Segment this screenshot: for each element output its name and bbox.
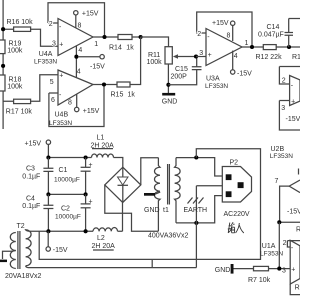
capacitor C1 [54, 158, 93, 195]
resistor R18 [0, 75, 23, 91]
svg-text:LF353N: LF353N [260, 250, 283, 257]
svg-text:R: R [295, 285, 300, 292]
svg-text:GND: GND [215, 267, 231, 274]
svg-text:C2: C2 [61, 205, 70, 212]
capacitor C15 [168, 57, 201, 85]
svg-text:LF353N: LF353N [49, 120, 72, 127]
svg-text:-15V: -15V [90, 64, 105, 71]
svg-text:L2: L2 [97, 235, 105, 242]
svg-text:P2: P2 [230, 159, 239, 166]
wire bridge AC left to t1 bottom [105, 185, 159, 231]
svg-text:+: + [89, 162, 93, 169]
ground GND t1 center tap [144, 192, 160, 214]
power -15V terminal left [46, 231, 68, 254]
power +15V terminal left [25, 140, 51, 158]
wire GND mid rail [48, 193, 85, 195]
svg-text:U3A: U3A [206, 76, 220, 83]
svg-text:R15: R15 [111, 91, 124, 98]
svg-text:5: 5 [50, 79, 54, 86]
transformer T2 secondary winding [0, 223, 25, 269]
svg-text:C1: C1 [59, 167, 68, 174]
bridge rectifier [105, 167, 141, 202]
svg-text:4: 4 [234, 53, 238, 60]
wire -rail [30, 230, 123, 232]
svg-text:+: + [59, 72, 63, 79]
svg-text:+15V: +15V [82, 10, 99, 17]
svg-text:LF353N: LF353N [270, 153, 293, 160]
svg-text:2: 2 [49, 21, 53, 28]
svg-text:-15V: -15V [53, 247, 68, 254]
svg-text:L1: L1 [97, 134, 105, 141]
svg-text:U4A: U4A [39, 51, 53, 58]
op-amp U1A cut at edge [260, 240, 300, 295]
wire bridge minus to rail [122, 203, 124, 232]
transformer t1 primary winding [163, 158, 180, 223]
svg-text:C3: C3 [26, 166, 35, 173]
svg-text:R16 10k: R16 10k [7, 19, 34, 26]
potentiometer R11 [141, 37, 196, 93]
wire earth bottom link [26, 266, 197, 268]
svg-text:GND: GND [162, 99, 178, 106]
node R7 right junction [277, 267, 281, 271]
node earth junction [194, 221, 198, 225]
wire U2B to R cut resistor [279, 221, 300, 223]
svg-text:2: 2 [283, 240, 287, 247]
resistor R12 [256, 45, 301, 61]
svg-text:20VA18Vx2: 20VA18Vx2 [5, 273, 42, 280]
svg-text:4: 4 [77, 68, 81, 75]
svg-text:t1: t1 [163, 207, 169, 214]
wire t1 primary bottom to P2 N [176, 196, 222, 223]
wire down to U1A pin3 [278, 222, 280, 268]
resistor R15 [111, 82, 136, 98]
svg-text:1: 1 [94, 41, 98, 48]
svg-text:R12 22k: R12 22k [256, 54, 283, 61]
svg-text:U2B: U2B [271, 146, 285, 153]
svg-text:4: 4 [78, 47, 82, 54]
transformer t1 core [168, 164, 170, 205]
svg-text:7: 7 [275, 178, 279, 185]
node +rail C3 [46, 155, 50, 159]
svg-text:3: 3 [199, 50, 203, 57]
transformer t1 secondary winding [155, 158, 161, 232]
capacitor C14 [258, 19, 300, 48]
label AC220V input [224, 211, 250, 233]
node U2B wire junction [277, 220, 281, 224]
transformer T2 primary winding [26, 230, 32, 266]
node -rail C2 [84, 229, 88, 233]
node junction ladder mid [1, 64, 5, 68]
node +rail C1 [84, 155, 88, 159]
wire +rail [48, 158, 122, 168]
node U4A output [102, 35, 106, 39]
node R12 right [287, 45, 291, 49]
svg-text:LF353N: LF353N [34, 59, 57, 66]
svg-text:U4B: U4B [55, 112, 69, 119]
resistor R19 [0, 40, 23, 54]
inductor L2 [92, 228, 118, 250]
ground GND terminal bottom [215, 264, 234, 274]
svg-text:3: 3 [52, 40, 56, 47]
svg-text:-15V: -15V [237, 70, 252, 77]
svg-text:R7 10k: R7 10k [248, 277, 271, 284]
op-amp U2A cut at edge [279, 67, 300, 131]
svg-text:100k: 100k [7, 47, 23, 54]
svg-text:8: 8 [68, 100, 72, 107]
svg-text:1k: 1k [126, 44, 134, 51]
op-amp U2B cut at edge [270, 146, 302, 223]
power +15V U4A pin8 [74, 10, 99, 29]
svg-text:100k: 100k [147, 59, 163, 66]
svg-text:GND: GND [144, 207, 160, 214]
svg-text:8: 8 [78, 23, 82, 30]
capacitor C2 [55, 194, 93, 231]
svg-text:C15: C15 [175, 66, 188, 73]
svg-text:R14: R14 [109, 44, 122, 51]
capacitor C4 [22, 194, 53, 231]
op-amp U4A [34, 3, 141, 66]
svg-text:LF353N: LF353N [205, 83, 228, 90]
earth EARTH symbol [184, 186, 223, 268]
capacitor C3 [22, 158, 53, 195]
svg-text:C4: C4 [26, 196, 35, 203]
resistor R7 [234, 266, 291, 283]
svg-text:AC220V: AC220V [224, 211, 250, 218]
svg-text:U1A: U1A [262, 243, 276, 250]
svg-text:1k: 1k [128, 91, 136, 98]
svg-text:2: 2 [197, 31, 201, 38]
svg-text:R17 10k: R17 10k [6, 109, 33, 116]
svg-text:T2: T2 [17, 223, 25, 230]
svg-text:2H 20A: 2H 20A [92, 243, 116, 250]
svg-text:0.1µF: 0.1µF [22, 203, 40, 210]
svg-text:10000µF: 10000µF [55, 214, 81, 221]
svg-text:0.1µF: 0.1µF [22, 174, 40, 181]
svg-text:+15V: +15V [25, 141, 42, 148]
svg-text:-15V: -15V [286, 116, 301, 123]
inductor L1 [91, 134, 115, 157]
svg-text:+: + [59, 42, 63, 49]
svg-text:+: + [291, 266, 295, 273]
wire AC top loop [39, 149, 260, 260]
svg-text:100k: 100k [7, 83, 23, 90]
resistor R14 [109, 35, 134, 52]
svg-text:+15V: +15V [212, 20, 229, 27]
svg-text:+: + [208, 52, 212, 59]
svg-text:+15V: +15V [83, 108, 100, 115]
svg-text:0.047µF: 0.047µF [258, 32, 284, 39]
svg-text:C14: C14 [267, 24, 280, 31]
power -15V U3A pin4 [231, 51, 253, 78]
node mid rail right [84, 192, 88, 196]
power +15V U4B pin8 [68, 94, 100, 115]
power +15V U3A pin8 [212, 20, 235, 41]
node R14 right [139, 35, 143, 39]
node -rail C4 [46, 229, 50, 233]
node R12 left [250, 45, 254, 49]
svg-text:6: 6 [51, 97, 55, 104]
ground GND under R11 [162, 93, 178, 106]
svg-text:3: 3 [282, 267, 286, 274]
node junction ladder top [1, 27, 5, 31]
node mid rail left [46, 192, 50, 196]
svg-text:3: 3 [281, 105, 285, 112]
svg-text:+: + [291, 98, 295, 105]
svg-text:R: R [296, 227, 300, 234]
svg-text:R1: R1 [292, 54, 300, 61]
power -15V U4A/U4B pin4 [74, 46, 105, 78]
resistor R17 [3, 75, 58, 116]
resistor R16 [3, 19, 58, 47]
svg-text:10000µF: 10000µF [54, 177, 80, 184]
svg-text:EARTH: EARTH [184, 207, 208, 214]
svg-text:1: 1 [245, 40, 249, 47]
svg-text:2: 2 [282, 78, 286, 85]
node U3A pin3 input [194, 54, 198, 58]
node U4B output [102, 82, 106, 86]
node AC L junction [194, 155, 198, 159]
op-amp U3A [196, 12, 263, 90]
svg-text:-15V: -15V [287, 209, 300, 216]
op-amp U4B [49, 37, 141, 127]
svg-text:8: 8 [227, 32, 231, 39]
svg-text:200P: 200P [171, 74, 188, 81]
wire t1 primary top to P2 [176, 158, 222, 176]
wire bridge AC right to t1 top [141, 158, 159, 185]
connector P2 socket [222, 159, 251, 202]
wire left ladder vertical [2, 0, 4, 129]
node R11 bottom [166, 83, 170, 87]
transformer T2 core [18, 231, 20, 269]
svg-text:400VA36Vx2: 400VA36Vx2 [148, 233, 188, 240]
svg-text:+: + [89, 198, 93, 205]
